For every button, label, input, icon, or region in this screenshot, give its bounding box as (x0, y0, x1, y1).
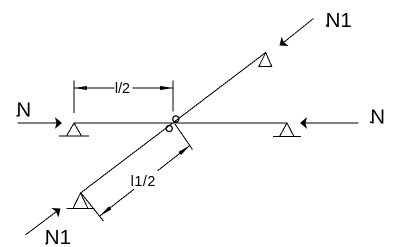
support top (pin on diagonal bar) (259, 53, 272, 67)
force N right arrow shaft (306, 122, 359, 124)
svg-text:l/2: l/2 (115, 81, 130, 97)
label N left anchor dot (17, 115, 19, 117)
dimension l1/2 extension line lower (81, 193, 104, 221)
dimension l1/2 line upper segment (158, 145, 191, 170)
dimension l1/2 extension line upper (175, 124, 193, 150)
dimension l/2 arrowhead right (160, 86, 174, 90)
force N1 top arrow shaft (284, 19, 314, 43)
dimension l/2 extension line left (73, 81, 75, 114)
wire diagonal bar (81, 53, 266, 194)
force N1 top arrowhead (276, 37, 289, 51)
dimension l/2 extension line right (172, 81, 174, 112)
svg-text:N: N (16, 99, 31, 122)
dimension l1/2 arrowhead upper (179, 144, 192, 155)
dimension l1/2 line lower segment (100, 189, 134, 216)
support right (pin) (273, 123, 301, 137)
svg-text:N: N (370, 106, 385, 129)
dimension l/2 arrowhead left (74, 86, 88, 90)
force N1 bottom arrow shaft (26, 212, 56, 235)
force N left arrow shaft (17, 122, 56, 124)
svg-text:N1: N1 (45, 226, 71, 247)
dimension l/2 line left segment (74, 87, 114, 89)
support left (pin) (59, 123, 89, 136)
force N left arrowhead (55, 117, 62, 129)
force N right arrowhead (300, 117, 307, 129)
svg-text:l1/2: l1/2 (131, 174, 156, 190)
support bottom (pin on diagonal bar) (66, 193, 94, 209)
label N right anchor dot (370, 121, 372, 123)
node hinge circle upper (173, 116, 179, 122)
dimension l1/2 arrowhead lower (98, 206, 111, 217)
wire horizontal bar (74, 122, 287, 124)
dimension l/2 line right segment (133, 87, 173, 89)
force N1 bottom arrowhead (51, 204, 64, 218)
label N1 bottom anchor dot (45, 243, 47, 245)
label N1 top anchor dot (326, 25, 328, 27)
node hinge circle lower (166, 125, 172, 131)
svg-text:N1: N1 (326, 9, 352, 32)
